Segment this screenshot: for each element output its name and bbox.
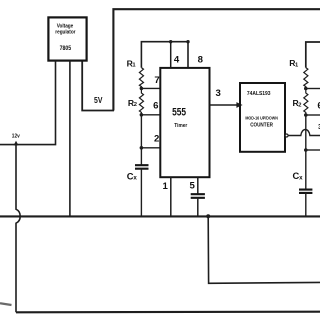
wire: pin 2 (141, 147, 160, 149)
wire: 555 #1 top supply rail (141, 42, 188, 68)
junction dot pin6 (right) (304, 113, 308, 117)
svg-text:MOD-16 UP/DOWN: MOD-16 UP/DOWN (245, 116, 278, 121)
wire: regulator ground pin down to rail (69, 61, 71, 217)
wire: 555 #2 top supply rail (306, 42, 320, 68)
svg-text:1: 1 (295, 62, 299, 68)
wire: Cx to ground rail (140, 169, 142, 216)
junction dot pin4 tap (169, 40, 172, 43)
junction dot pin7 (right) (304, 87, 308, 91)
svg-text:x: x (299, 174, 303, 181)
junction dot pin2 (140, 146, 144, 150)
resistor R2 (right) zigzag (304, 89, 308, 116)
junction dot pin7 (140, 87, 144, 91)
svg-text:COUNTER: COUNTER (250, 123, 273, 129)
wire: pin 6 (right) (306, 114, 320, 116)
IC 74ALS193 counter box U2 (240, 83, 285, 152)
svg-text:7805: 7805 (60, 45, 72, 52)
capacitor Cx (right) plates (299, 190, 312, 193)
svg-text:2: 2 (154, 133, 159, 144)
wire: pin 3 output to counter (210, 104, 238, 106)
wire: pin 1 to ground rail (170, 177, 172, 216)
wire: top 5V distribution line (113, 9, 320, 110)
capacitor C (pin5 bypass) plates (191, 194, 205, 198)
open terminal circle on counter output (285, 134, 288, 137)
svg-text:regulator: regulator (55, 29, 76, 35)
junction dot on rail (206, 214, 210, 218)
resistor R2 (left) zigzag (139, 88, 143, 114)
svg-text:2: 2 (134, 102, 137, 108)
svg-text:6: 6 (153, 100, 158, 111)
wire: counter output with hop over resistor column (288, 130, 320, 136)
svg-text:x: x (133, 174, 137, 181)
wire: R column down to pin2 node (140, 115, 142, 148)
junction dot pin6 (140, 113, 144, 117)
IC 555 timer box U1 (160, 68, 209, 177)
svg-text:3: 3 (216, 88, 221, 99)
wire: pin 2 (right) (306, 149, 320, 151)
resistor R1 (left) zigzag (139, 68, 143, 89)
svg-text:7: 7 (154, 75, 159, 86)
12v arrow head (14, 141, 19, 146)
wire: bottom return line (16, 311, 320, 314)
wire: rail to lower link line (208, 216, 320, 283)
wire: Cx (right) to ground rail (305, 193, 307, 216)
junction dot pin8 tap (186, 40, 189, 43)
svg-text:555: 555 (172, 106, 186, 118)
arrowhead into counter (236, 102, 242, 108)
svg-text:12v: 12v (12, 133, 21, 139)
svg-text:2: 2 (298, 102, 301, 108)
wire: node down to Cx (140, 148, 142, 165)
svg-text:5V: 5V (94, 96, 103, 105)
wire: pin 4 drop (170, 42, 172, 68)
voltage regulator 7805 box (48, 17, 86, 60)
wire: bypass cap to ground rail (197, 198, 199, 216)
svg-text:1: 1 (163, 181, 169, 192)
ground rail (main horizontal line) (0, 215, 320, 217)
wire: 12v lead down with hop over ground rail (16, 145, 20, 312)
junction dot pin2 (right) (304, 148, 308, 152)
wire: node down to Cx (right) (305, 150, 307, 190)
svg-text:Timer: Timer (174, 123, 188, 129)
svg-text:4: 4 (174, 55, 180, 66)
stray line segment at left edge (0, 303, 12, 305)
wire: pin 6 (141, 114, 160, 116)
capacitor Cx (left) plates (135, 165, 149, 169)
svg-text:1: 1 (132, 63, 136, 69)
wire: column down to pin2 node (right) (305, 115, 307, 150)
wire: pin 7 (right) (306, 88, 320, 90)
wire: regulator output to 5V node (82, 61, 114, 111)
wire: pin 5 to bypass cap (197, 177, 199, 194)
svg-text:5: 5 (190, 181, 196, 192)
wire: regulator input pin to 12v source (0, 61, 56, 145)
svg-text:74ALS193: 74ALS193 (247, 91, 271, 97)
svg-text:8: 8 (198, 55, 204, 66)
resistor R1 (right) zigzag (304, 68, 308, 89)
wire: pin 7 (141, 87, 160, 89)
